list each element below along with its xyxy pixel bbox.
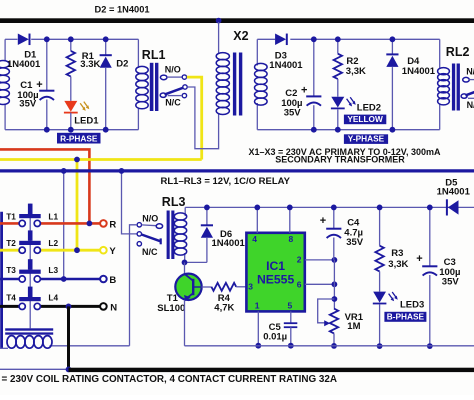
contactor contacts row2 [19, 247, 25, 253]
svg-text:Y-PHASE: Y-PHASE [348, 134, 385, 144]
wire pin8 stub [289, 207, 291, 232]
svg-text:L1: L1 [48, 212, 58, 222]
svg-text:RL2: RL2 [446, 45, 470, 59]
wire contactor row2 yellow + terminal Y [0, 249, 19, 252]
label badge YELLOW [344, 115, 386, 125]
wire contactor left frame [0, 212, 3, 348]
wire R-phase block left [4, 39, 6, 61]
LED2 yellow indicator [331, 97, 344, 108]
svg-text:L2: L2 [48, 238, 58, 248]
transformer X2 secondary winding [256, 39, 258, 65]
label badge Y-PHASE [344, 134, 388, 144]
contactor pole T4-L4 bridge [28, 287, 33, 297]
capacitor C1 100u 35V [46, 39, 48, 90]
relay RL2 coil [439, 39, 441, 69]
contactor contacts row3 [19, 276, 25, 282]
svg-text:35V: 35V [346, 237, 364, 248]
svg-text:LED3: LED3 [400, 300, 424, 311]
diode D1 1N4001 [18, 34, 29, 46]
wire contactor coil left lead [0, 347, 8, 349]
resistor R2 3,3K [337, 39, 339, 53]
node yellow bus junction [74, 157, 80, 163]
svg-text:2: 2 [297, 255, 302, 265]
svg-text:3.3K: 3.3K [80, 59, 100, 70]
svg-text:RL1: RL1 [142, 48, 166, 62]
svg-text:1: 1 [255, 300, 260, 310]
transistor T1 SL100 [175, 274, 201, 300]
diode D2 [105, 39, 107, 55]
svg-text:35V: 35V [442, 277, 460, 288]
svg-text:1N4001: 1N4001 [212, 238, 246, 249]
relay RL3 coil [184, 207, 186, 216]
svg-text:0.01µ: 0.01µ [263, 331, 287, 342]
node X2 primary to neutral [216, 18, 222, 24]
wire navy phase bus B [0, 169, 474, 172]
wire neutral top line [0, 18, 474, 23]
svg-text:YELLOW: YELLOW [347, 114, 383, 124]
capacitor C4 4.7u 35V [333, 207, 335, 228]
wire yellow from RL1 N/O to yellow bus [187, 77, 202, 159]
wire contactor row4 black + terminal N [0, 305, 19, 308]
relay RL2 contact N/C (clipped) [468, 97, 474, 99]
svg-text:= 230V COIL RATING CONTACTOR,: = 230V COIL RATING CONTACTOR, 4 CONTACT … [2, 374, 338, 385]
svg-text:1M: 1M [347, 321, 360, 332]
svg-text:3: 3 [248, 282, 253, 292]
wire R-phase block top [5, 38, 17, 40]
svg-text:C3: C3 [444, 257, 456, 268]
wire VR1 wiper [318, 299, 335, 323]
svg-text:N/O: N/O [466, 67, 474, 77]
svg-text:T3: T3 [6, 265, 16, 275]
svg-text:SECONDARY TRANSFORMER: SECONDARY TRANSFORMER [275, 155, 405, 165]
svg-text:NE555: NE555 [257, 273, 294, 287]
svg-text:35V: 35V [284, 107, 302, 118]
capacitor C3 100u 35V [429, 207, 431, 266]
svg-text:LED1: LED1 [74, 116, 99, 127]
relay RL1 coil [137, 39, 139, 68]
svg-text:T1: T1 [6, 212, 16, 222]
resistor R4 4,7K [202, 286, 212, 288]
svg-text:35V: 35V [19, 99, 37, 110]
wire contactor row3 blue + terminal B [0, 278, 19, 281]
contactor coil winding [7, 336, 16, 349]
svg-text:R: R [109, 219, 116, 230]
svg-text:3,3K: 3,3K [388, 259, 408, 270]
svg-text:B: B [109, 275, 116, 286]
wire neutral bottom bus [69, 368, 474, 372]
svg-text:1N4001: 1N4001 [7, 59, 41, 70]
svg-text:B-PHASE: B-PHASE [387, 312, 425, 322]
LED1 red indicator [64, 101, 77, 112]
wire navy bus to RL3 common [122, 171, 137, 234]
svg-text:N/O: N/O [142, 213, 158, 223]
label badge B-PHASE [384, 312, 426, 322]
diode D6 1N4001 [206, 207, 208, 225]
svg-text:6: 6 [297, 280, 302, 290]
svg-text:D2 = 1N4001: D2 = 1N4001 [95, 5, 150, 15]
contactor pole T2-L2 bridge [28, 230, 33, 240]
svg-text:D2: D2 [116, 59, 128, 70]
svg-text:1N4001: 1N4001 [437, 187, 471, 198]
wire T1 emitter to ground bus [184, 300, 186, 346]
wire contactor coil to RL3 N/O riser [50, 345, 130, 347]
diode D3 1N4001 [275, 34, 286, 46]
svg-text:+: + [301, 84, 307, 96]
capacitor C5 0.01u [284, 322, 298, 324]
svg-text:SL100: SL100 [157, 303, 185, 314]
relay RL1 contact N/C [182, 93, 186, 97]
svg-text:4,7K: 4,7K [214, 303, 234, 314]
svg-text:X2: X2 [233, 29, 248, 43]
svg-text:L3: L3 [48, 265, 58, 275]
svg-text:L4: L4 [48, 293, 58, 303]
wire circuit common bus [185, 345, 474, 347]
wire pin5 to C5 [290, 311, 292, 323]
wire D6 anode to RL3 coil bottom [185, 261, 207, 263]
label badge R-PHASE [57, 133, 101, 144]
transformer X2 core [233, 53, 236, 116]
wire R-phase block bottom [5, 129, 138, 131]
contactor pole T3-L3 bridge [28, 259, 33, 269]
svg-text:T2: T2 [6, 238, 16, 248]
resistor R1 3.3K [70, 39, 72, 51]
relay RL3 armature (common pole) [137, 232, 141, 236]
wire Y-phase block top [257, 38, 275, 40]
svg-text:Y: Y [109, 246, 116, 257]
wire pin2 to C4 line [305, 259, 335, 261]
node navy bus junction left [61, 168, 67, 174]
wire 12V rail from RL3 to right edge [185, 206, 474, 208]
svg-text:LED2: LED2 [357, 103, 381, 114]
wire yellow phase bus Y [0, 158, 202, 161]
relay RL2 core [452, 64, 455, 111]
contactor pole T1-L1 bridge [28, 204, 33, 214]
svg-text:N/C: N/C [142, 247, 158, 257]
LED3 indicator [373, 292, 386, 303]
wire contactor coil feed to RL3 N/O [130, 225, 138, 346]
op-amp timer IC1 NE555 [246, 233, 304, 312]
relay RL1 armature (common pole) [160, 93, 166, 97]
svg-text:R-PHASE: R-PHASE [60, 133, 98, 143]
wire thin common from left edge [0, 368, 69, 370]
wire red phase bus R [0, 149, 89, 223]
svg-text:N: N [110, 302, 117, 313]
wire pin6 to VR1 line [305, 283, 335, 285]
transformer X2 primary winding [218, 22, 220, 54]
svg-text:1N4001: 1N4001 [269, 60, 303, 71]
svg-text:T4: T4 [6, 293, 16, 303]
transformer X1 secondary winding [0, 61, 9, 68]
wire RL1 common to X2 primary bottom [187, 87, 218, 149]
svg-text:IC1: IC1 [266, 259, 285, 273]
wire contactor mechanical link [29, 204, 31, 329]
svg-text:N/C: N/C [467, 100, 474, 110]
capacitor C2 100u 35V [313, 39, 315, 96]
svg-text:R3: R3 [391, 248, 403, 259]
svg-text:N/O: N/O [165, 65, 181, 75]
svg-text:4: 4 [252, 234, 257, 244]
contactor coil core [5, 328, 53, 330]
diode D4 1N4001 [391, 39, 393, 54]
svg-text:5: 5 [288, 300, 293, 310]
resistor R3 3,3K [379, 207, 381, 245]
svg-text:RL3: RL3 [162, 195, 186, 209]
diode D5 1N4001 [448, 200, 459, 214]
svg-text:8: 8 [289, 234, 294, 244]
relay RL3 contact N/C [137, 242, 141, 246]
svg-text:1N4001: 1N4001 [402, 66, 436, 77]
wire contactor row1 red + terminal R [0, 222, 19, 225]
wire yellow drop to contactor row2 [76, 160, 79, 251]
potentiometer VR1 1M [330, 309, 338, 334]
wire neutral drop from row4 [67, 306, 70, 369]
svg-text:3,3K: 3,3K [346, 66, 366, 77]
contactor contacts row4 [19, 303, 25, 309]
svg-text:+: + [416, 253, 422, 265]
relay RL3 core [167, 211, 170, 260]
wire pin4 stub [256, 207, 258, 232]
contactor contacts row1 [19, 220, 25, 226]
wire navy drop to contactor row3 [63, 171, 65, 279]
svg-text:+: + [320, 215, 326, 227]
relay RL1 core [150, 63, 154, 111]
wire RL3 to T1 collector [184, 262, 186, 274]
svg-text:N/C: N/C [165, 98, 181, 108]
node navy bus junction RL3 [119, 168, 125, 174]
wire pin1 to ground bus [257, 311, 259, 345]
wire pin2/pin6/VR1 junction line [333, 260, 335, 309]
wire Y-phase block bottom [257, 129, 439, 131]
relay RL2 armature (clipped) [461, 94, 467, 98]
svg-text:RL1–RL3 = 12V, 1C/O RELAY: RL1–RL3 = 12V, 1C/O RELAY [161, 176, 291, 187]
